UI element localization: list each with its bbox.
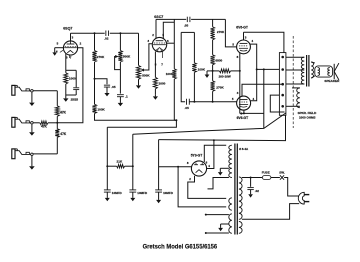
terminal 3 — [281, 83, 284, 86]
resistor 270K (V1 plate load) — [94, 33, 96, 50]
wire plate pin2 to rail — [155, 19, 157, 38]
node rail / pot1 — [119, 32, 121, 34]
wire pin6 to HV top — [204, 145, 226, 162]
tube 6SQ7 V1 — [63, 41, 77, 55]
svg-text:1000 OHMS: 1000 OHMS — [299, 116, 316, 120]
svg-text:6SQ7: 6SQ7 — [63, 27, 72, 31]
svg-text:21K: 21K — [117, 159, 123, 163]
capacitor 10MFD #1 — [104, 189, 111, 191]
winding primary 117V — [239, 177, 242, 219]
wire HV plate drop to 5Y3 pin4 — [207, 140, 214, 169]
tube 5Y3-GT V5 — [191, 161, 206, 176]
wire left leg — [181, 32, 185, 101]
wire B+ line to terminal strip — [159, 115, 286, 140]
tube 6V6-GT V4 — [237, 96, 251, 110]
node decoupling junction — [94, 78, 96, 80]
svg-text:.02: .02 — [255, 189, 260, 193]
resistor 200-10W cathode bias — [213, 70, 220, 72]
wire cathode pin8 — [239, 53, 241, 114]
node — [177, 166, 179, 168]
wire filament pin2 side to 5V winding — [188, 176, 226, 199]
node screen/B+ drop — [263, 68, 265, 70]
svg-text:500K: 500K — [123, 54, 131, 58]
heater stub pin7 — [69, 55, 71, 58]
wire HV center tap — [220, 167, 229, 169]
wire cathode pin8 — [154, 52, 156, 78]
wire plate pin3 to strip — [242, 84, 283, 96]
wire grid pin5 from rail — [225, 19, 236, 47]
wire 6SQ7 grid (pin2) to input junction — [57, 48, 83, 123]
svg-text:100K: 100K — [198, 68, 206, 72]
wire pin5 grid2 — [55, 47, 64, 49]
node — [213, 139, 215, 141]
terminal 2 — [281, 68, 284, 71]
wire heater lead 2 — [205, 232, 207, 234]
input jack — [12, 85, 15, 95]
node — [193, 101, 195, 103]
ground — [31, 92, 33, 103]
svg-text:200-10W: 200-10W — [219, 74, 231, 78]
wire screen feed to strip — [257, 68, 280, 70]
input jack — [12, 117, 15, 127]
wire HV bottom lead — [208, 178, 229, 189]
resistor 270K grid leak V4 — [212, 71, 214, 81]
svg-text:10MFD: 10MFD — [112, 191, 123, 195]
svg-text:270K: 270K — [217, 30, 225, 34]
wire cathode — [65, 54, 67, 71]
wire filament pin8 side to 5V winding — [178, 167, 226, 207]
node — [243, 112, 245, 114]
transformer T1 output: primary — [286, 56, 304, 58]
input jack — [12, 149, 15, 159]
svg-text:25/25: 25/25 — [71, 98, 79, 102]
wire rail to 270K chain — [212, 19, 214, 26]
svg-text:Gretsch Model G6155/6156: Gretsch Model G6155/6156 — [143, 244, 218, 251]
ground — [31, 124, 33, 132]
svg-text:6SC7: 6SC7 — [154, 15, 163, 19]
node plate rail / 270K — [94, 32, 96, 34]
wire L2 to filter — [107, 120, 176, 127]
wire plate pin3 to OPT — [243, 32, 245, 40]
wire field bottom to terminal 5 — [286, 105, 300, 107]
ground — [219, 168, 221, 172]
node bias junction — [212, 70, 214, 72]
wire screen pin4 — [250, 44, 257, 101]
svg-text:.05: .05 — [111, 85, 116, 89]
potentiometer 500K tone (ch2) — [136, 65, 140, 79]
svg-text:1000: 1000 — [69, 77, 76, 81]
svg-text:.1: .1 — [125, 94, 128, 98]
wire screen-node bus with diagonal to strip — [133, 113, 286, 134]
pin4 stub — [60, 50, 63, 52]
wire pin5 jog — [163, 22, 174, 38]
svg-text:47K: 47K — [60, 132, 67, 136]
winding 6.3V heaters — [229, 214, 232, 234]
wiper arrow — [115, 55, 119, 58]
wire to voice coil — [311, 62, 315, 63]
ground — [106, 87, 108, 93]
svg-text:47K: 47K — [41, 125, 48, 129]
resistor 1000 cathode V2 — [153, 77, 157, 89]
wire pin6 jog — [166, 42, 174, 44]
svg-text:.05: .05 — [184, 23, 189, 27]
potentiometer 500K volume — [119, 33, 121, 50]
phase inverter divider: top bar — [181, 31, 194, 33]
node — [212, 101, 214, 103]
transformer T2 power: core — [234, 144, 236, 235]
resistor 47K (jack2 series) — [33, 122, 40, 124]
resistor 6800 — [211, 55, 215, 65]
resistor 100K (B+ dropper) — [94, 79, 96, 105]
ground — [65, 95, 67, 98]
node cathode junction — [239, 70, 241, 72]
wire filter node 1 — [106, 127, 108, 189]
wire jack1 to bus — [33, 90, 57, 92]
terminal 1 — [281, 56, 284, 59]
resistor 1000 cathode — [64, 73, 68, 84]
wire jack3 to bus — [33, 153, 57, 155]
T1 core — [306, 55, 308, 87]
wire to plug — [284, 178, 299, 197]
speaker voice coil box — [315, 66, 333, 77]
svg-text:5Y3-GT: 5Y3-GT — [191, 153, 203, 157]
wire cathode pin8 / DC out — [159, 166, 192, 168]
capacitor .05 decoupling — [95, 79, 108, 84]
wire to tone pot — [138, 33, 140, 65]
ground — [31, 156, 33, 167]
wire plug return to primary — [242, 204, 299, 220]
wire B+ rail L1 — [95, 114, 177, 121]
capacitor 10MFD #3 — [158, 140, 160, 190]
terminal 5 — [281, 105, 284, 108]
svg-text:100K: 100K — [166, 72, 174, 76]
svg-text:FUSE: FUSE — [262, 170, 270, 174]
svg-text:SW.: SW. — [279, 170, 285, 174]
terminal strip — [279, 53, 286, 116]
ground — [207, 70, 213, 72]
terminal 4 — [281, 94, 284, 97]
svg-text:.02: .02 — [104, 37, 109, 41]
svg-text:47K: 47K — [60, 110, 67, 114]
svg-text:SPKR. FIELD: SPKR. FIELD — [298, 111, 318, 115]
svg-text:10MFD: 10MFD — [137, 191, 148, 195]
svg-text:270K: 270K — [97, 55, 105, 59]
svg-text:500K: 500K — [142, 73, 150, 77]
T1 secondary — [311, 62, 313, 78]
wire 6SC7 plate rail (V2) — [156, 18, 186, 20]
wire grid line to 6V6 #2 — [189, 101, 236, 103]
AC plug — [298, 192, 304, 204]
capacitor 25/25 bypass — [75, 70, 77, 87]
resistor 47K (input bus lower) — [56, 123, 58, 129]
capacitor .05 coupling to V4 grid — [186, 99, 188, 105]
capacitor .1 tone — [117, 94, 124, 96]
capacitor .02 line filter — [250, 178, 252, 187]
tube 6V6-GT V3 — [237, 40, 251, 54]
svg-text:6V6-GT: 6V6-GT — [236, 26, 248, 30]
wire strip terminal4 feed — [270, 95, 284, 112]
svg-text:10MFD: 10MFD — [163, 191, 174, 195]
svg-text:# 8-4A: # 8-4A — [239, 147, 249, 151]
capacitor .02 coupling — [105, 31, 107, 36]
wire filter node 2 — [132, 134, 134, 189]
capacitor .05 coupling to V3 — [186, 17, 188, 22]
wire 6SQ7 plate rail — [70, 33, 72, 41]
wire primary top to fuse — [242, 177, 263, 179]
svg-text:.05: .05 — [185, 106, 190, 110]
svg-text:6V6-GT: 6V6-GT — [237, 116, 249, 120]
ground — [119, 97, 121, 103]
heater stub pin7 — [161, 52, 163, 59]
winding 5V rectifier filament — [229, 198, 232, 210]
resistor 100K grid leak — [193, 32, 195, 62]
svg-text:100K: 100K — [97, 107, 105, 111]
resistor 100K (V2 plate load) — [173, 19, 175, 68]
wiper arrow from 6SC7 grid — [140, 69, 144, 72]
node L1/plate-load junction — [175, 119, 177, 121]
wire cathode pin8 — [244, 110, 264, 113]
svg-text:270K: 270K — [216, 86, 224, 90]
ground — [138, 79, 140, 85]
svg-text:6800: 6800 — [215, 58, 222, 62]
resistor 21K — [107, 165, 116, 167]
capacitor 10MFD #2 — [129, 189, 136, 191]
node jack2/grid junction — [56, 122, 58, 124]
node line cap junction — [250, 177, 252, 179]
node — [132, 165, 134, 167]
wire B+2/cathode drop — [263, 69, 265, 128]
tube 6SC7 V2 — [152, 37, 166, 51]
ground (6SQ7 diode plates) — [54, 48, 56, 53]
winding HV secondary — [229, 145, 232, 177]
node — [106, 165, 108, 167]
node — [256, 68, 258, 70]
svg-text:SPEAKER: SPEAKER — [324, 79, 340, 83]
speaker — [333, 64, 335, 79]
dashed chassis boundary — [292, 36, 294, 128]
wire heater lead 1 — [205, 214, 207, 216]
ground — [154, 95, 156, 97]
resistor 270K — [211, 27, 215, 40]
svg-text:1000: 1000 — [159, 82, 166, 86]
wire heater center tap — [221, 223, 229, 225]
speaker field coil — [292, 87, 300, 89]
resistor 47K (input bus upper) — [56, 91, 58, 106]
